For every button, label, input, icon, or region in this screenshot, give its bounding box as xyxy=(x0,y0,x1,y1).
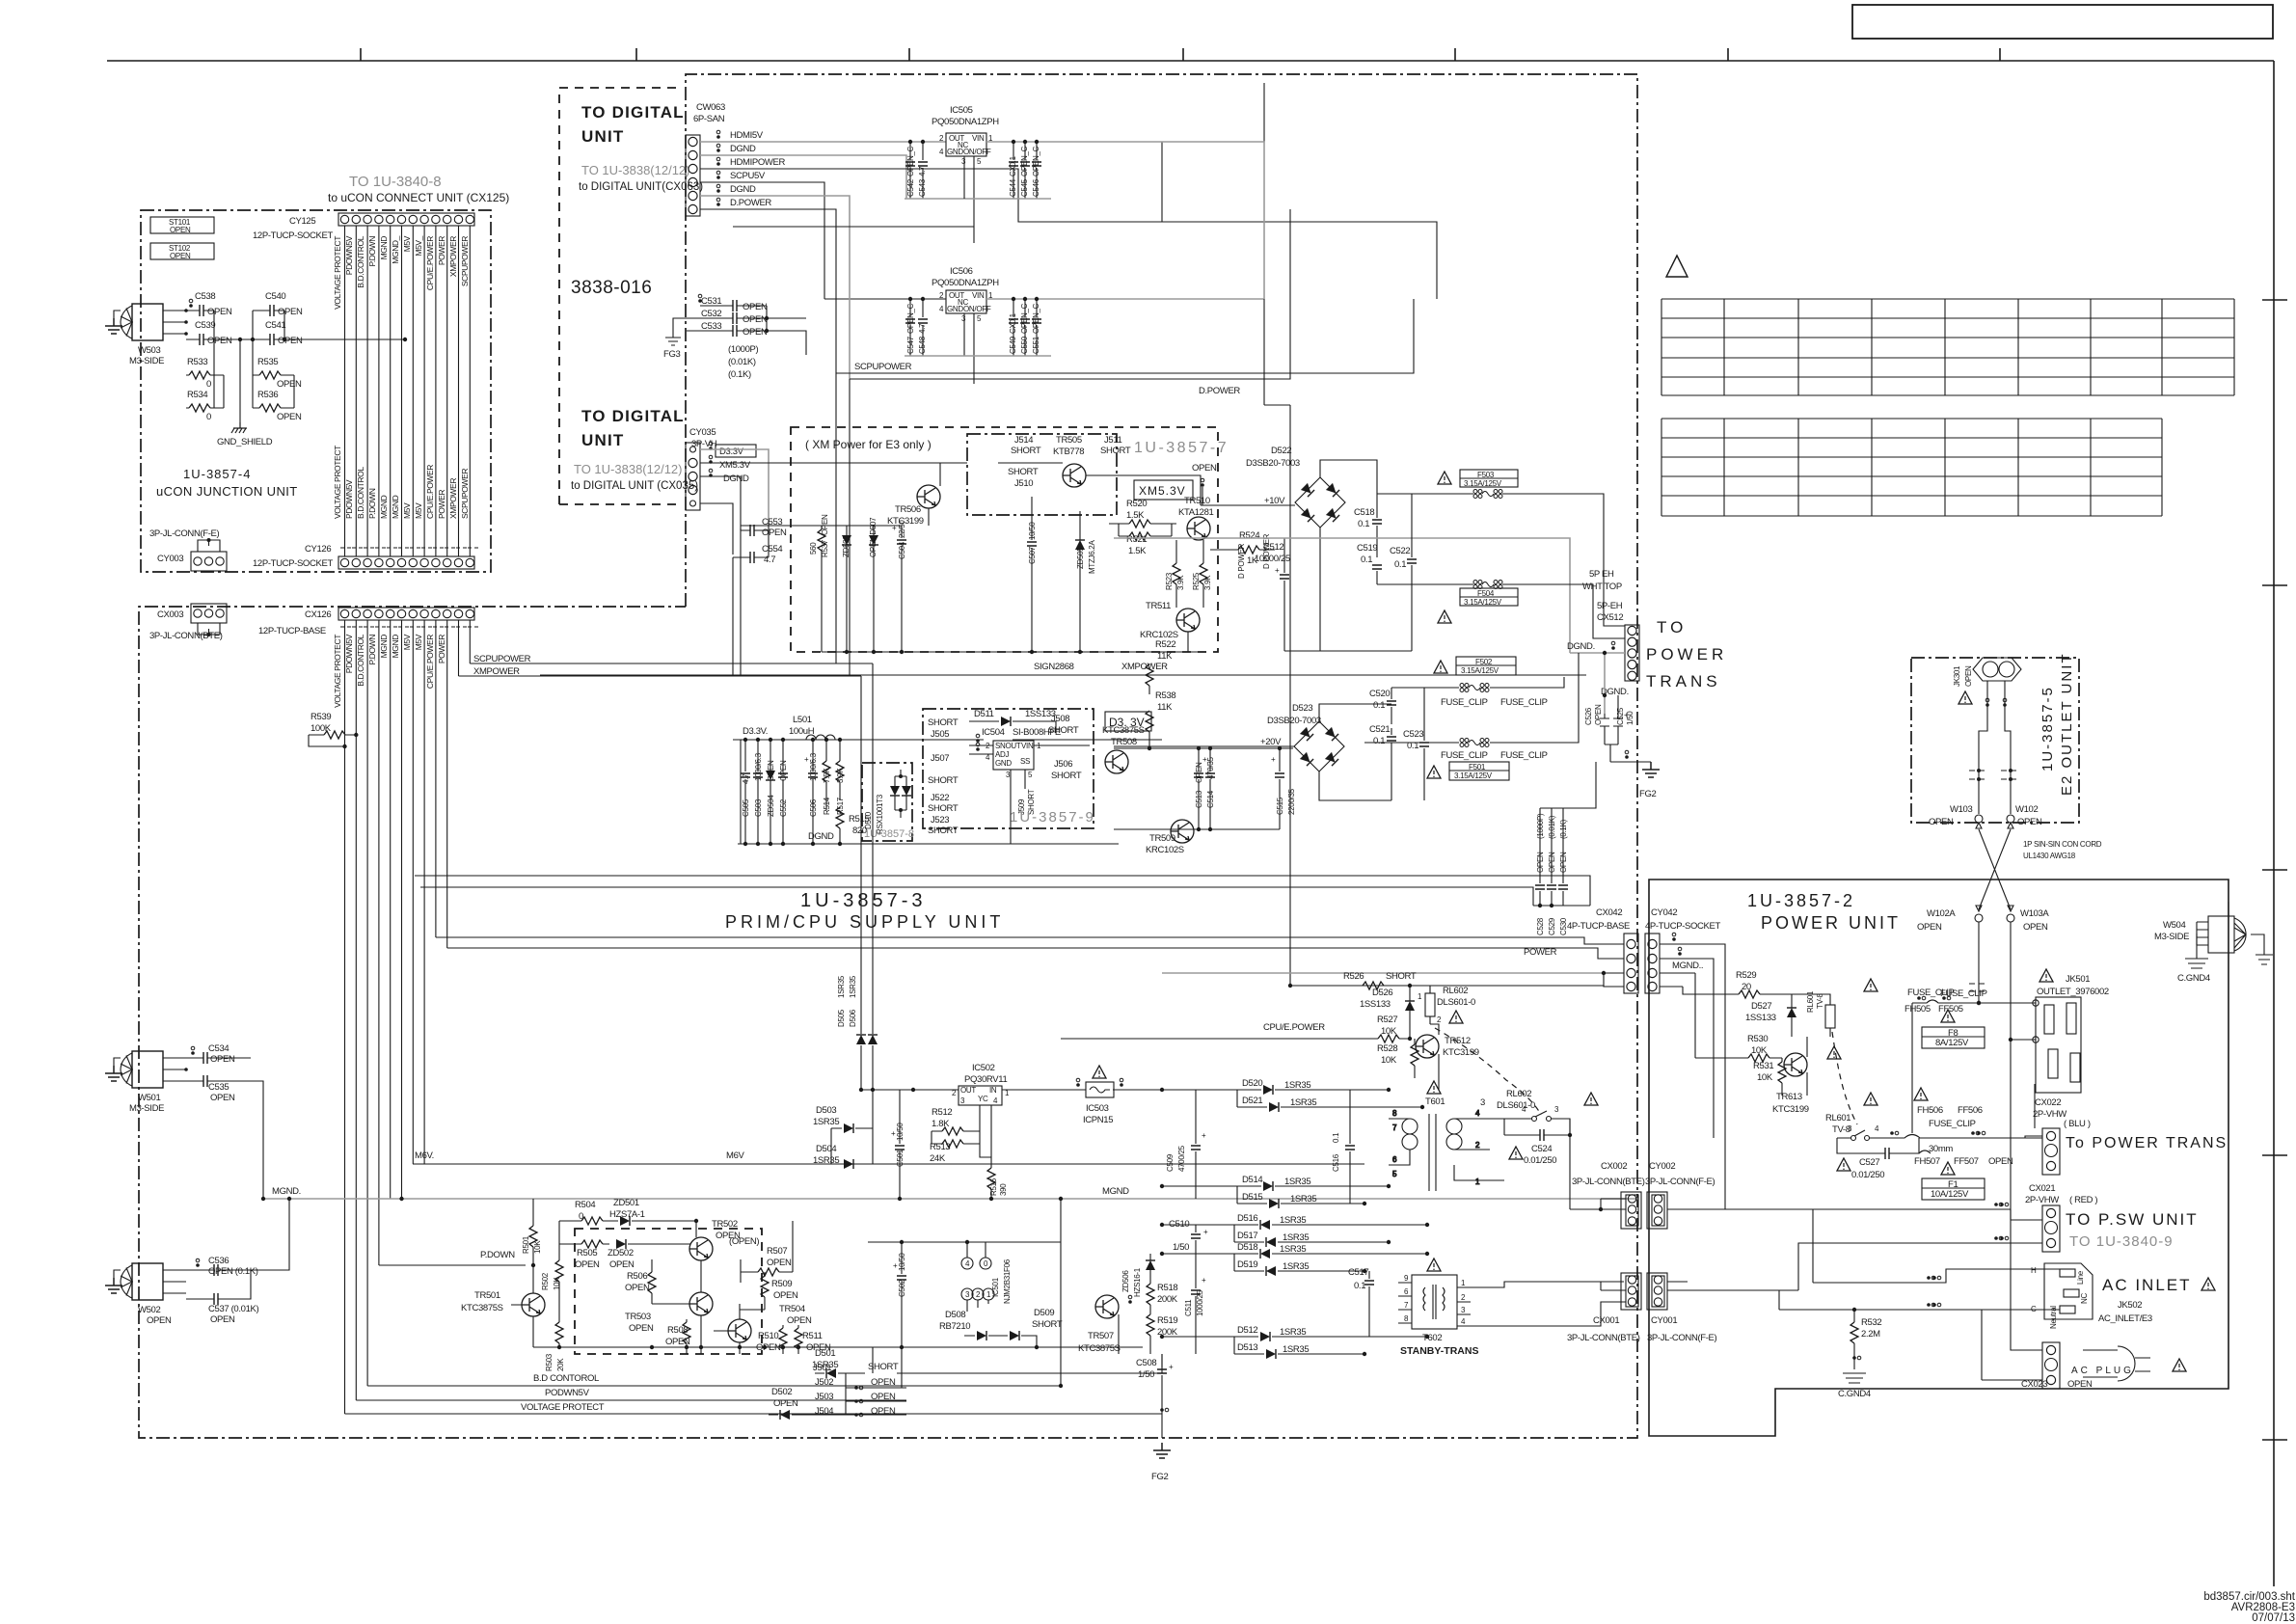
svg-text:uCON JUNCTION UNIT: uCON JUNCTION UNIT xyxy=(156,484,298,499)
svg-text:TR506: TR506 xyxy=(895,504,921,515)
svg-text:1SR35: 1SR35 xyxy=(1283,1232,1309,1243)
svg-text:TR507: TR507 xyxy=(1088,1331,1114,1341)
resistor R526 SHORT xyxy=(1290,971,1417,989)
svg-text:J506: J506 xyxy=(1054,759,1072,770)
svg-text:B.D CONTOROL: B.D CONTOROL xyxy=(533,1373,599,1384)
svg-text:IC506: IC506 xyxy=(950,266,973,277)
junction dots xyxy=(238,338,407,341)
wire POWER long xyxy=(447,948,1624,959)
svg-text:1: 1 xyxy=(1475,1177,1480,1186)
svg-text:OPEN: OPEN xyxy=(773,1290,798,1301)
svg-text:J507: J507 xyxy=(931,753,949,764)
ground W502 xyxy=(105,1278,122,1293)
transformer T602 STANBY-TRANS xyxy=(1427,1259,1441,1271)
svg-text:3: 3 xyxy=(965,1290,970,1299)
svg-text:+: + xyxy=(891,1129,896,1138)
svg-text:1: 1 xyxy=(1461,1279,1466,1287)
svg-text:CX512: CX512 xyxy=(1597,612,1623,623)
border top line xyxy=(107,60,2274,62)
svg-text:R529: R529 xyxy=(1736,970,1756,981)
wire HDMI5V to IC505 xyxy=(700,141,946,143)
svg-text:W501: W501 xyxy=(138,1093,160,1103)
svg-text:Line: Line xyxy=(2076,1270,2085,1285)
svg-text:4: 4 xyxy=(1875,1124,1879,1133)
svg-text:0: 0 xyxy=(206,379,211,390)
wire HDMIPOWER (steps to IC505 VIN net) xyxy=(700,83,1437,299)
svg-text:CY035: CY035 xyxy=(689,427,716,438)
wire MGND long xyxy=(263,1198,1638,1200)
svg-text:DLS601-0: DLS601-0 xyxy=(1437,997,1475,1008)
svg-text:1U-3857-4: 1U-3857-4 xyxy=(183,467,251,481)
wire ON/OFF stub (IC506) xyxy=(964,313,974,384)
fuse F502 xyxy=(1434,657,1516,675)
wires into AC inlet xyxy=(1813,1209,2060,1283)
svg-text:TR508: TR508 xyxy=(1111,737,1137,747)
svg-text:CY003: CY003 xyxy=(157,554,183,564)
svg-text:PODWN5V: PODWN5V xyxy=(545,1388,590,1398)
svg-text:R522: R522 xyxy=(1155,639,1175,650)
svg-text:J511: J511 xyxy=(1104,435,1122,446)
svg-text:SNOUT: SNOUT xyxy=(995,742,1021,750)
svg-text:PDOWN5V: PDOWN5V xyxy=(344,235,354,275)
capacitor C510 1/50 xyxy=(1169,1219,1208,1254)
capacitor C541 xyxy=(240,320,405,346)
svg-text:PQ30RV11: PQ30RV11 xyxy=(964,1074,1007,1085)
capacitor C526 OPEN xyxy=(1584,704,1609,744)
svg-text:OPEN: OPEN xyxy=(207,336,232,346)
net labels (rotated) top set xyxy=(333,235,470,310)
zener ZD505 MTZJ6.2A xyxy=(1075,511,1096,652)
diodes D505/D506 1SR35 (vertical pair top) xyxy=(837,663,878,1090)
svg-text:OPEN: OPEN xyxy=(210,1093,235,1103)
svg-text:HZS7A-1: HZS7A-1 xyxy=(609,1209,645,1220)
capacitor C527 0.01/250 xyxy=(1837,1138,1919,1180)
svg-text:D522: D522 xyxy=(1271,446,1291,456)
svg-text:1SR35: 1SR35 xyxy=(1284,1177,1310,1187)
svg-text:D505: D505 xyxy=(837,1009,846,1027)
svg-text:2.2M: 2.2M xyxy=(1861,1329,1880,1340)
resistor R504 0 xyxy=(559,1200,608,1225)
svg-text:R538: R538 xyxy=(1155,690,1175,701)
J501..J504 rows xyxy=(813,1362,899,1417)
wire pair to CX042 xyxy=(415,876,1590,906)
svg-text:R502: R502 xyxy=(541,1272,550,1290)
svg-text:F503: F503 xyxy=(1477,471,1495,479)
ground C.GND4 (bottom) xyxy=(1853,1362,1855,1369)
svg-text:CX001: CX001 xyxy=(1593,1315,1619,1326)
svg-text:D515: D515 xyxy=(1242,1192,1262,1203)
svg-text:C512: C512 xyxy=(1263,542,1283,553)
resistor R519 200K xyxy=(1147,1313,1178,1354)
svg-text:3P-JL-CONN(F-E): 3P-JL-CONN(F-E) xyxy=(1647,1333,1717,1343)
svg-text:C522: C522 xyxy=(1390,546,1410,556)
label TO POWER TRANS (large) xyxy=(1646,618,1727,690)
capacitor C531 xyxy=(698,294,768,312)
svg-text:PRIM/CPU SUPPLY UNIT: PRIM/CPU SUPPLY UNIT xyxy=(725,912,1004,932)
connector CX512 xyxy=(1625,625,1639,681)
diode D501 1SR35 xyxy=(812,1348,846,1378)
svg-text:TO P.SW UNIT: TO P.SW UNIT xyxy=(2066,1210,2199,1229)
svg-text:to uCON CONNECT UNIT (CX125): to uCON CONNECT UNIT (CX125) xyxy=(328,191,509,204)
svg-text:CPU/E.POWER: CPU/E.POWER xyxy=(425,635,435,689)
svg-text:1SR35: 1SR35 xyxy=(1283,1261,1309,1272)
capacitor C544 xyxy=(1009,140,1018,199)
svg-text:D3.3V.: D3.3V. xyxy=(743,726,768,737)
svg-text:W102A: W102A xyxy=(1927,908,1956,919)
svg-text:0.1: 0.1 xyxy=(1332,1132,1340,1143)
svg-text:C.GND4: C.GND4 xyxy=(2177,973,2210,984)
svg-text:M3-SIDE: M3-SIDE xyxy=(2154,932,2189,942)
wire columns right caps xyxy=(253,311,294,408)
svg-text:D520: D520 xyxy=(1242,1078,1262,1089)
diode row D516/D517 xyxy=(1162,1213,1427,1247)
bottom long wires xyxy=(345,1386,1163,1414)
svg-text:D.POWER: D.POWER xyxy=(1199,386,1240,396)
svg-text:D3SB20-7003: D3SB20-7003 xyxy=(1267,716,1321,726)
svg-text:5P-EH: 5P-EH xyxy=(1597,601,1623,611)
diode D504 1SR35 xyxy=(813,1128,873,1169)
svg-text:AC PLUG: AC PLUG xyxy=(2071,1366,2134,1376)
svg-text:2200/35: 2200/35 xyxy=(1287,788,1296,815)
svg-text:4.7: 4.7 xyxy=(764,555,775,565)
svg-text:GND: GND xyxy=(947,305,963,313)
grey DGND wires xyxy=(1570,653,1625,714)
capacitor C511 1000/25 xyxy=(1184,1254,1206,1354)
svg-text:OPEN: OPEN xyxy=(278,307,303,317)
transistor TR613 KTC3199 xyxy=(1784,1053,1807,1076)
svg-text:1.5K: 1.5K xyxy=(1126,510,1145,521)
resistor R507 OPEN xyxy=(741,1221,793,1283)
svg-text:SCPU5V: SCPU5V xyxy=(730,171,766,181)
capacitor C550 xyxy=(1020,297,1030,356)
svg-text:VIN: VIN xyxy=(972,134,985,143)
resistor R521 1.5K xyxy=(1119,524,1172,556)
zener ZD501 HZS7A-1 xyxy=(559,1198,696,1244)
svg-text:C533: C533 xyxy=(701,321,721,332)
svg-text:5P EH: 5P EH xyxy=(1589,569,1614,580)
connector CX023 OPEN xyxy=(2042,1342,2060,1389)
svg-text:C554: C554 xyxy=(762,544,782,555)
wire IC502 row xyxy=(861,1089,1162,1091)
capacitor C553 xyxy=(741,517,787,538)
svg-text:FG2: FG2 xyxy=(1639,789,1656,799)
svg-text:DGND.: DGND. xyxy=(1567,641,1595,652)
net labels (rotated) lower set xyxy=(333,446,470,519)
POWER UNIT solid box xyxy=(1649,880,2228,1436)
capacitor C503 1000/6.3 xyxy=(753,740,763,844)
svg-text:0.01/250: 0.01/250 xyxy=(1851,1170,1884,1180)
resistor R528 10K xyxy=(1377,1039,1418,1078)
svg-text:FUSE_CLIP: FUSE_CLIP xyxy=(1929,1119,1976,1129)
FG3 ground xyxy=(663,318,687,360)
svg-text:4: 4 xyxy=(965,1259,970,1268)
capacitor C552 OPEN xyxy=(778,740,788,844)
resistor R510 OPEN xyxy=(756,1325,787,1354)
svg-text:W502: W502 xyxy=(138,1305,160,1315)
svg-text:IC502: IC502 xyxy=(972,1063,995,1073)
wire DGND2 xyxy=(700,196,850,379)
resistor R517 3.9K xyxy=(836,740,845,815)
svg-text:TV-8: TV-8 xyxy=(1816,992,1824,1009)
capacitor C515 2200/35 xyxy=(1271,748,1296,829)
capacitor C538 xyxy=(186,291,232,317)
svg-text:3P-JL-CONN(BTE): 3P-JL-CONN(BTE) xyxy=(149,631,223,641)
svg-text:OPEN: OPEN xyxy=(821,514,829,535)
resistor R516 390 xyxy=(987,1105,1008,1199)
svg-text:OUTLET_3976002: OUTLET_3976002 xyxy=(2037,987,2109,997)
ground GND_SHIELD xyxy=(231,422,247,433)
svg-text:W102: W102 xyxy=(2015,804,2038,815)
wires into CX002 xyxy=(1570,1199,1915,1209)
wire bus CY125 to CY126: 12 verticals xyxy=(345,226,471,556)
svg-text:8: 8 xyxy=(1392,1109,1397,1118)
wire M6V long xyxy=(413,1163,1364,1165)
resistor R523 3.9K xyxy=(1165,540,1185,608)
svg-text:XM5.3V: XM5.3V xyxy=(1139,484,1186,498)
svg-text:DGND: DGND xyxy=(730,144,756,154)
transistor TR507 KTC3875S xyxy=(1095,1295,1119,1318)
boxed label D3.3V (right) xyxy=(1105,712,1151,731)
svg-text:R527: R527 xyxy=(1377,1015,1397,1025)
connector W502 OPEN xyxy=(121,1263,186,1326)
resistor R505 OPEN xyxy=(559,1240,609,1270)
svg-text:8A/125V: 8A/125V xyxy=(1935,1038,1969,1048)
svg-text:SHORT: SHORT xyxy=(928,803,959,814)
fuse clip sym row2 xyxy=(1880,1131,2025,1138)
svg-text:OPEN: OPEN xyxy=(2017,817,2042,827)
svg-text:C508: C508 xyxy=(1136,1358,1156,1368)
svg-text:SHORT: SHORT xyxy=(928,826,959,836)
svg-text:D513: D513 xyxy=(1237,1342,1257,1353)
svg-text:+: + xyxy=(1202,1276,1206,1285)
svg-text:CW063: CW063 xyxy=(696,102,725,113)
svg-text:2: 2 xyxy=(976,1290,981,1299)
svg-text:DGND: DGND xyxy=(730,184,756,195)
svg-text:MGND: MGND xyxy=(379,495,389,519)
resistor R539 100K xyxy=(309,712,358,748)
svg-text:SCPUPOWER: SCPUPOWER xyxy=(460,469,470,519)
fuse F501 xyxy=(1427,762,1509,780)
TR502 dashed box (OPEN) xyxy=(575,1229,762,1354)
svg-text:R539: R539 xyxy=(311,712,331,722)
svg-text:POWER: POWER xyxy=(437,635,446,663)
resistor R520 1.5K xyxy=(1109,499,1176,528)
svg-text:TR511: TR511 xyxy=(1146,601,1171,611)
svg-text:C532: C532 xyxy=(701,309,721,319)
svg-text:KTC3875S: KTC3875S xyxy=(461,1303,503,1313)
svg-text:D POWER: D POWER xyxy=(1237,543,1246,579)
svg-text:4P-TUCP-BASE: 4P-TUCP-BASE xyxy=(1567,921,1630,932)
wire XM5.3V xyxy=(700,462,916,464)
wire to FG2 bottom xyxy=(1161,1392,1163,1438)
XM bottom rail xyxy=(822,632,1201,652)
svg-text:XMPOWER: XMPOWER xyxy=(1121,662,1168,672)
svg-text:D3. 3V: D3. 3V xyxy=(1109,716,1145,729)
svg-text:10A/125V: 10A/125V xyxy=(1931,1189,1969,1200)
svg-text:M5V: M5V xyxy=(402,502,412,519)
connector CX126 12P-TUCP-BASE xyxy=(338,608,474,620)
svg-text:M3-SIDE: M3-SIDE xyxy=(129,1103,164,1114)
svg-text:CPU/E.POWER: CPU/E.POWER xyxy=(1263,1022,1325,1033)
svg-text:OPEN: OPEN xyxy=(787,1315,812,1326)
capacitor C539 xyxy=(186,320,240,346)
svg-text:OPEN: OPEN xyxy=(743,314,768,325)
svg-text:FUSE_CLIP: FUSE_CLIP xyxy=(1441,697,1488,708)
svg-text:+: + xyxy=(1202,755,1207,764)
svg-text:ZD506: ZD506 xyxy=(1121,1270,1130,1292)
wire into BLU conn xyxy=(2025,1136,2042,1138)
svg-text:MGND..: MGND.. xyxy=(1672,961,1703,971)
wire DGND xyxy=(700,155,906,199)
svg-text:5: 5 xyxy=(1028,771,1033,779)
svg-text:1U-3857-5: 1U-3857-5 xyxy=(2039,686,2056,771)
svg-text:C531: C531 xyxy=(701,296,721,307)
svg-text:POWER UNIT: POWER UNIT xyxy=(1761,913,1901,933)
D3.3V rail xyxy=(733,740,1162,844)
svg-text:4700/25: 4700/25 xyxy=(1177,1145,1186,1172)
connector CY125 12P-TUCP-SOCKET xyxy=(338,213,474,226)
svg-text:1U-3857-7: 1U-3857-7 xyxy=(1134,440,1229,456)
svg-text:3: 3 xyxy=(1006,771,1011,779)
svg-text:D527: D527 xyxy=(1751,1001,1771,1012)
wire joining caps column xyxy=(214,311,224,408)
svg-text:OPEN: OPEN xyxy=(207,307,232,317)
svg-text:OPEN: OPEN xyxy=(210,1054,235,1065)
svg-text:24K: 24K xyxy=(930,1153,946,1164)
svg-text:VOLTAGE PROTECT: VOLTAGE PROTECT xyxy=(333,446,342,519)
fuse clip row (bottom) xyxy=(1364,653,1579,761)
connector W501 M3-SIDE xyxy=(121,1051,188,1114)
diode row D512/D513 xyxy=(1162,1325,1427,1359)
svg-text:( XM Power for E3 only ): ( XM Power for E3 only ) xyxy=(805,438,932,451)
svg-text:CX126: CX126 xyxy=(305,609,331,620)
title block xyxy=(1852,5,2273,39)
svg-text:MGND: MGND xyxy=(379,635,389,659)
svg-text:2: 2 xyxy=(1437,1015,1442,1024)
svg-text:OUT: OUT xyxy=(960,1086,976,1095)
svg-text:PDOWN5V: PDOWN5V xyxy=(344,634,354,673)
svg-text:R532: R532 xyxy=(1861,1317,1881,1328)
svg-text:30mm: 30mm xyxy=(1929,1144,1953,1154)
inductor L501 100uH xyxy=(789,715,835,740)
svg-text:AC INLET: AC INLET xyxy=(2102,1276,2192,1294)
svg-text:1SR35: 1SR35 xyxy=(1280,1327,1306,1338)
wire P.DOWN xyxy=(379,1264,526,1266)
IC504 wires xyxy=(969,745,1090,844)
wire SCPU5V down to SCPUPOWER xyxy=(700,182,946,299)
diode D526 1SS133 xyxy=(1360,984,1415,1024)
svg-text:D508: D508 xyxy=(945,1310,965,1320)
svg-text:OPEN: OPEN xyxy=(1964,665,1973,687)
capacitor C547 xyxy=(905,297,915,356)
svg-text:M5V: M5V xyxy=(402,235,412,252)
wire to FG2 xyxy=(1605,744,1651,762)
svg-text:P.DOWN: P.DOWN xyxy=(367,236,377,267)
svg-text:(0.1K): (0.1K) xyxy=(728,369,751,380)
svg-text:F501: F501 xyxy=(1469,763,1486,771)
resistor R532 2.2M xyxy=(1850,1308,1881,1362)
capacitor C543 xyxy=(918,140,928,199)
net labels rotated below CX126 xyxy=(333,634,446,708)
svg-text:SHORT: SHORT xyxy=(1011,446,1041,456)
jumper J501 SHORT xyxy=(0,0,1,1)
svg-text:1SR35: 1SR35 xyxy=(1290,1097,1316,1108)
PRIM/CPU SUPPLY UNIT outer box xyxy=(139,74,1637,1438)
svg-text:3.15A/125V: 3.15A/125V xyxy=(1454,771,1493,780)
diode row D518/D519 xyxy=(1162,1242,1427,1276)
svg-text:MGND: MGND xyxy=(1102,1186,1129,1197)
svg-text:R503: R503 xyxy=(545,1353,554,1371)
svg-text:0.1: 0.1 xyxy=(1394,559,1406,570)
svg-text:H: H xyxy=(2031,1266,2037,1275)
svg-text:SHORT: SHORT xyxy=(1048,725,1079,736)
svg-text:M5V: M5V xyxy=(414,502,423,519)
svg-text:IC505: IC505 xyxy=(950,105,973,116)
svg-text:J510: J510 xyxy=(1014,478,1033,489)
svg-text:0.1: 0.1 xyxy=(1373,700,1385,711)
svg-text:8: 8 xyxy=(1404,1314,1409,1323)
capacitor C546 xyxy=(1032,140,1041,199)
J510/J514 inner dash-dot box xyxy=(967,434,1117,515)
svg-text:C523: C523 xyxy=(1403,729,1423,740)
svg-text:FUSE_CLIP: FUSE_CLIP xyxy=(1441,750,1488,761)
svg-text:+10V: +10V xyxy=(1264,496,1285,506)
svg-text:D510: D510 xyxy=(864,811,873,829)
tiny plug pairs below CX126 xyxy=(340,626,478,628)
svg-text:POWER: POWER xyxy=(437,236,446,265)
svg-text:+: + xyxy=(892,524,897,532)
svg-text:OPEN: OPEN xyxy=(743,327,768,338)
svg-text:3.15A/125V: 3.15A/125V xyxy=(1461,666,1499,675)
svg-text:560: 560 xyxy=(809,542,818,555)
svg-text:0.1: 0.1 xyxy=(1358,519,1369,529)
svg-text:+20V: +20V xyxy=(1260,737,1282,747)
grey wire D.POWER mid xyxy=(1114,538,1570,653)
connector CY126 12P-TUCP-SOCKET xyxy=(338,556,474,569)
resistor R506 OPEN xyxy=(625,1259,656,1304)
svg-text:DGND: DGND xyxy=(723,474,749,484)
IC501 NJM2B31F06 xyxy=(961,1242,1012,1312)
ground C.GND4 (W504 left) xyxy=(2196,934,2198,959)
DGND rail under IC505 xyxy=(905,198,1051,200)
svg-text:D3.3V: D3.3V xyxy=(719,447,744,457)
svg-text:D511: D511 xyxy=(974,709,994,719)
svg-text:GND: GND xyxy=(947,148,963,156)
svg-text:SCPUPOWER: SCPUPOWER xyxy=(854,362,912,372)
svg-text:1: 1 xyxy=(1418,992,1422,1001)
svg-text:KTC3875S: KTC3875S xyxy=(1078,1343,1121,1354)
svg-text:D509: D509 xyxy=(1034,1308,1054,1318)
svg-text:SCPUPOWER: SCPUPOWER xyxy=(473,654,531,664)
connector W504 M3-SIDE xyxy=(2154,916,2246,953)
svg-text:P.DOWN: P.DOWN xyxy=(367,488,377,519)
ground FG2 (bottom) xyxy=(1153,1443,1171,1458)
svg-text:R533: R533 xyxy=(187,357,207,367)
svg-text:OPEN: OPEN xyxy=(170,252,191,260)
svg-text:ON/OFF: ON/OFF xyxy=(963,305,991,313)
svg-text:4: 4 xyxy=(1461,1317,1466,1326)
resistor R513 24K xyxy=(930,1131,980,1164)
svg-text:12P-TUCP-SOCKET: 12P-TUCP-SOCKET xyxy=(253,558,333,569)
svg-text:CY001: CY001 xyxy=(1651,1315,1677,1326)
resistor R509 OPEN xyxy=(761,1272,798,1310)
svg-text:R531: R531 xyxy=(1753,1061,1773,1071)
wire POWER to CX042 pin1 xyxy=(1290,986,1624,987)
resistor R529 20 xyxy=(1683,970,1792,1005)
svg-text:TR505: TR505 xyxy=(1056,435,1082,446)
svg-text:C535: C535 xyxy=(208,1082,229,1093)
capacitor C501 10/50 xyxy=(891,1090,905,1199)
